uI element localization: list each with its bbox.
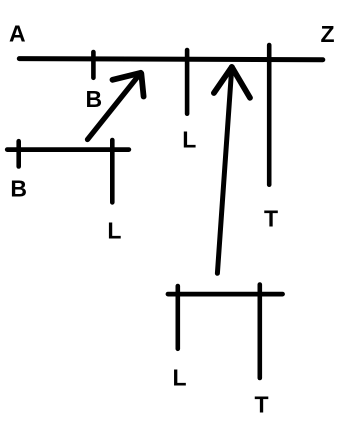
svg-text:T: T — [264, 206, 278, 232]
diagonal arrow lower barb — [141, 74, 143, 97]
diagonal arrow left barb — [113, 73, 141, 80]
svg-text:T: T — [255, 392, 269, 418]
diagonal arrow shaft — [88, 73, 141, 140]
tick T on timeline — [267, 45, 272, 185]
tick L on timeline — [185, 50, 190, 114]
svg-text:L: L — [182, 127, 196, 153]
wire middle-left segment — [7, 147, 129, 152]
svg-text:Z: Z — [321, 21, 335, 47]
vertical arrow right barb — [232, 67, 250, 98]
vertical arrow shaft — [217, 67, 231, 273]
tick B on timeline — [91, 52, 96, 78]
wire main timeline A-Z — [19, 59, 323, 60]
svg-text:L: L — [173, 364, 187, 390]
wire bottom segment — [168, 292, 283, 297]
svg-text:B: B — [10, 176, 27, 202]
tick T stem on bottom segment — [257, 285, 262, 379]
tick L stem on middle segment — [110, 140, 115, 202]
svg-text:B: B — [86, 86, 103, 112]
tick L stem on bottom segment — [176, 286, 181, 349]
vertical arrow left barb — [214, 67, 232, 93]
tick B on middle segment — [16, 141, 21, 166]
svg-text:L: L — [107, 218, 121, 244]
svg-text:A: A — [9, 21, 26, 47]
